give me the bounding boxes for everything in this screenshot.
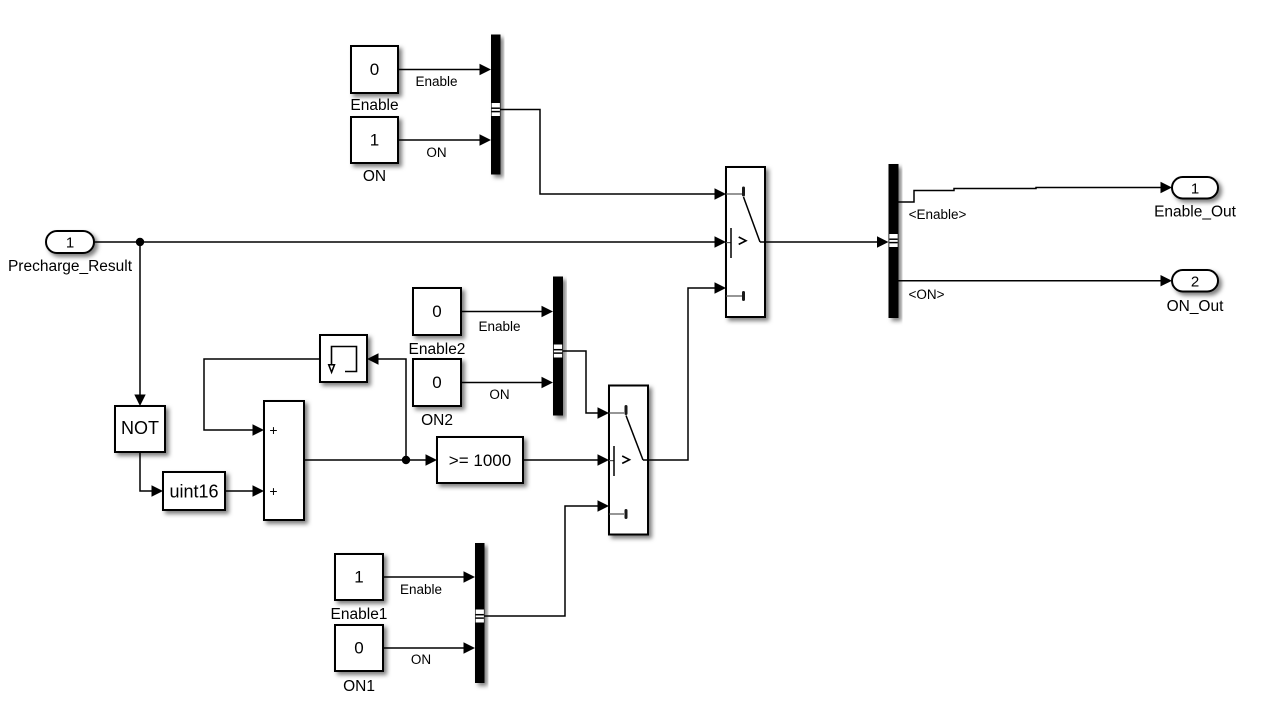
svg-text:+: + [269, 422, 277, 438]
outport 2 ON_Out [1167, 270, 1225, 315]
wire Switch1 to BusSelector [765, 236, 889, 247]
constant ON1 (value 0) [335, 625, 383, 695]
wire Sum to RelationalOperator [304, 454, 437, 465]
wire RelationalOperator to Switch2 input2 [523, 454, 609, 465]
constant Enable2 (value 0) [409, 288, 466, 358]
svg-text:1: 1 [1191, 181, 1199, 198]
constant ON2 (value 0) [413, 359, 461, 429]
wire BusCreator2 to Switch2 input1 [563, 351, 609, 419]
inport 1 Precharge_Result [8, 231, 133, 275]
svg-text:<Enable>: <Enable> [909, 207, 967, 222]
svg-text:Enable: Enable [478, 319, 520, 334]
relational operator >= 1000 [437, 437, 523, 483]
svg-text:ON_Out: ON_Out [1167, 298, 1225, 315]
bus creator 3 [475, 543, 485, 683]
svg-text:<ON>: <ON> [908, 287, 944, 302]
svg-text:1: 1 [66, 235, 74, 252]
wire BusSelector Enable to Outport1 [899, 182, 1173, 222]
wire uint16 to Sum [225, 485, 264, 496]
wire ON1 to BusCreator3 [383, 642, 475, 667]
wire Memory to Sum input1 [204, 359, 320, 436]
wire ON2 to BusCreator2 [461, 377, 553, 402]
svg-text:ON: ON [363, 168, 386, 185]
switch 2 [609, 386, 648, 535]
wire Enable const to BusCreator1 [398, 64, 491, 89]
wire Enable2 to BusCreator2 [461, 306, 553, 334]
wire BusCreator1 to Switch1 input1 [501, 110, 727, 200]
svg-text:uint16: uint16 [169, 482, 218, 502]
switch 1 [726, 167, 765, 317]
memory block (flipped) [320, 335, 367, 382]
svg-text:Enable: Enable [415, 74, 457, 89]
wire feedback up to Memory [367, 353, 406, 460]
wire ON const to BusCreator1 [398, 134, 491, 160]
svg-text:Enable2: Enable2 [409, 341, 466, 358]
svg-text:ON2: ON2 [421, 412, 453, 429]
wire BusCreator3 to Switch2 input3 [485, 500, 610, 616]
wire Precharge_Result to Switch1 input2 [94, 236, 726, 247]
wire BusSelector ON to Outport2 [899, 275, 1173, 302]
svg-text:ON: ON [489, 387, 509, 402]
constant ON (value 1) [351, 117, 398, 185]
svg-text:ON: ON [426, 145, 446, 160]
wire Enable1 to BusCreator3 [383, 571, 475, 597]
svg-text:>= 1000: >= 1000 [449, 451, 511, 470]
svg-text:Enable: Enable [400, 582, 442, 597]
junction node at Precharge branch [136, 238, 144, 246]
bus creator 2 [553, 277, 563, 416]
svg-text:ON1: ON1 [343, 678, 375, 695]
svg-text:0: 0 [432, 373, 441, 392]
svg-text:ON: ON [411, 652, 431, 667]
svg-text:0: 0 [432, 302, 441, 321]
outport 1 Enable_Out [1154, 177, 1237, 221]
bus selector [889, 164, 899, 318]
svg-text:1: 1 [354, 568, 363, 587]
wire NOT to uint16 [140, 452, 163, 497]
svg-text:Precharge_Result: Precharge_Result [8, 258, 133, 275]
data type conversion uint16 [163, 472, 225, 510]
svg-text:NOT: NOT [121, 418, 159, 438]
svg-text:Enable_Out: Enable_Out [1154, 204, 1237, 221]
wire Switch2 to Switch1 input3 [648, 282, 726, 460]
svg-text:0: 0 [354, 639, 363, 658]
svg-text:0: 0 [370, 60, 379, 79]
bus creator 1 [491, 35, 501, 175]
svg-text:+: + [269, 483, 277, 499]
svg-text:2: 2 [1191, 274, 1199, 291]
sum block [264, 401, 304, 520]
constant Enable1 (value 1) [331, 554, 388, 623]
svg-text:Enable1: Enable1 [331, 606, 388, 623]
constant Enable (value 0) [350, 46, 398, 114]
wire branch down to NOT [134, 242, 145, 406]
logic block NOT [115, 406, 165, 452]
junction node sum output [402, 456, 410, 464]
svg-text:1: 1 [370, 131, 379, 150]
svg-text:Enable: Enable [350, 97, 398, 114]
